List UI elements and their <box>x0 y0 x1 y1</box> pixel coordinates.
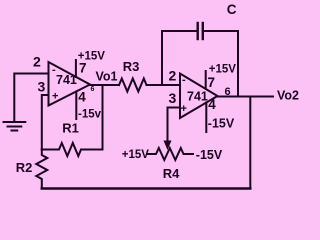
wire: U2 pin 7 supply <box>205 71 207 89</box>
svg-text:-: - <box>182 74 186 86</box>
wire: U2 pin 4 supply <box>205 103 207 133</box>
svg-text:741: 741 <box>56 73 77 87</box>
wire: ground to op-amp U1 pin 2 <box>14 74 48 122</box>
svg-text:6: 6 <box>225 86 231 98</box>
wire: R3 to U2 pin 2 <box>147 84 181 86</box>
svg-text:R1: R1 <box>62 120 79 135</box>
svg-text:+15V: +15V <box>209 64 237 76</box>
wire: U1 output to R3 <box>90 84 119 86</box>
ground <box>4 122 26 131</box>
svg-text:2: 2 <box>33 54 41 70</box>
wire: U1 pin 4 supply <box>75 92 77 120</box>
svg-text:741: 741 <box>187 89 208 103</box>
svg-text:+: + <box>181 103 187 115</box>
svg-text:Vo1: Vo1 <box>96 70 118 84</box>
resistor R2 <box>36 150 47 188</box>
svg-text:-15V: -15V <box>208 116 235 130</box>
svg-text:+15V: +15V <box>122 149 150 161</box>
svg-text:-15v: -15v <box>78 109 102 121</box>
svg-text:7: 7 <box>79 61 87 76</box>
svg-text:4: 4 <box>78 90 86 105</box>
resistor R3 <box>119 79 147 92</box>
wire: bottom return from R2 to Vo2 node <box>42 187 251 190</box>
svg-text:R2: R2 <box>16 160 33 175</box>
resistor R4 <box>147 148 193 160</box>
svg-text:C: C <box>227 2 237 17</box>
svg-text:R4: R4 <box>163 166 180 181</box>
wire: feedback from Vo1 node down to R1 <box>82 85 103 150</box>
svg-text:3: 3 <box>38 78 46 94</box>
svg-text:3: 3 <box>169 90 177 106</box>
wire: Vo2 node down to bottom return <box>249 97 251 189</box>
wire: U1 pin 7 supply <box>75 60 77 77</box>
svg-text:Vo2: Vo2 <box>277 89 299 103</box>
R4 wiper arrowhead <box>164 141 172 151</box>
svg-text:7: 7 <box>208 75 216 90</box>
op-amp U2 triangle <box>180 74 218 119</box>
capacitor C plates <box>196 23 198 39</box>
svg-text:+: + <box>52 91 58 103</box>
svg-text:4: 4 <box>208 97 216 112</box>
wire: capacitor C to Vo2 node <box>203 31 238 97</box>
wire: U2 output Vo2 <box>218 96 274 98</box>
op-amp U1 triangle <box>49 62 91 106</box>
wire: U2 pin 3 input to R4 wiper <box>168 108 181 142</box>
svg-text:2: 2 <box>169 67 177 83</box>
svg-text:+15V: +15V <box>78 51 106 63</box>
svg-text:R3: R3 <box>123 59 140 74</box>
resistor R1 <box>42 143 81 156</box>
wire: U1 pin 3 input down to R1/R2 node <box>42 95 49 150</box>
svg-text:-15V: -15V <box>196 148 223 162</box>
svg-text:6: 6 <box>91 86 95 93</box>
wire: capacitor loop left riser <box>162 31 198 85</box>
